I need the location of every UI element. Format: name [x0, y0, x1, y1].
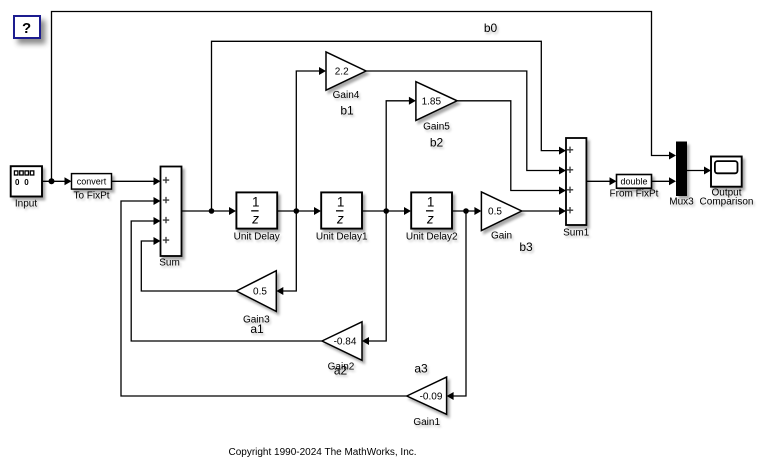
wire: Mux3 output to Output Comparison scope	[687, 167, 711, 175]
wire: tap up to Gain5 input	[386, 97, 416, 211]
junction: Sum output node	[209, 208, 215, 214]
svg-text:z: z	[336, 211, 344, 226]
help button ?	[14, 16, 40, 38]
svg-text:?: ?	[22, 20, 31, 37]
wire: Gain4 output to Sum1 input 2	[366, 71, 566, 175]
svg-text:z: z	[251, 211, 259, 226]
svg-text:-0.84: -0.84	[334, 337, 357, 348]
svg-text:b3: b3	[519, 240, 533, 254]
svg-text:Gain5: Gain5	[423, 121, 450, 132]
converter block To FixPt	[72, 174, 112, 190]
gain Gain (0.5) b3	[481, 192, 521, 231]
gain Gain1 (-0.09) a3, points left	[407, 377, 447, 414]
svg-text:Unit Delay: Unit Delay	[234, 232, 280, 243]
wire: Gain output to Sum1 input 4	[522, 207, 566, 215]
svg-text:-0.09: -0.09	[420, 392, 443, 403]
svg-text:a1: a1	[250, 322, 264, 336]
svg-text:Sum1: Sum1	[563, 228, 590, 239]
svg-text:convert: convert	[77, 177, 107, 187]
svg-text:1: 1	[427, 195, 435, 210]
junction: Unit Delay1 output node	[383, 208, 389, 214]
svg-text:Gain4: Gain4	[333, 90, 360, 101]
svg-text:Comparison: Comparison	[700, 197, 754, 208]
svg-text:1: 1	[337, 195, 345, 210]
svg-text:a2: a2	[334, 363, 348, 377]
wire: tap up to Gain4 input	[296, 67, 326, 211]
svg-text:Gain: Gain	[491, 231, 512, 242]
wire: Gain3 output to Sum input 4	[141, 237, 236, 291]
svg-text:1: 1	[252, 195, 260, 210]
delay block Unit Delay	[236, 192, 277, 228]
svg-text:Gain1: Gain1	[413, 417, 440, 428]
junction: Input output node	[49, 178, 55, 184]
gain Gain3 (0.5) a1, points left	[236, 271, 276, 312]
junction: Unit Delay output node	[294, 208, 300, 214]
gain Gain2 (-0.84) a2, points left	[322, 322, 362, 361]
wire: Gain2 output to Sum input 3	[131, 217, 322, 341]
wire: tap down to Gain2 input	[362, 211, 386, 345]
delay block Unit Delay1	[321, 192, 362, 228]
converter block From FixPt	[617, 175, 652, 189]
wire: Sum output to Unit Delay	[182, 207, 237, 215]
wire: Input output to To FixPt	[42, 177, 72, 185]
svg-text:double: double	[620, 177, 647, 187]
svg-text:0.5: 0.5	[253, 287, 267, 298]
adder Sum	[161, 167, 182, 257]
wire: From FixPt to Mux3 input 2	[652, 177, 677, 185]
svg-text:0.5: 0.5	[488, 207, 502, 218]
svg-text:b0: b0	[484, 21, 498, 35]
svg-text:b1: b1	[340, 104, 354, 118]
source block Input	[11, 166, 42, 196]
wire: tap down to Gain1 input	[447, 211, 466, 400]
svg-text:Mux3: Mux3	[669, 197, 694, 208]
svg-text:From FixPt: From FixPt	[610, 189, 659, 200]
wire: tap down to Gain3 input	[276, 211, 296, 295]
wire: Sum1 output to From FixPt	[586, 177, 616, 185]
delay block Unit Delay2	[411, 192, 452, 228]
mux Mux3	[676, 142, 687, 197]
svg-text:Sum: Sum	[159, 258, 180, 269]
label Output Comparison	[700, 188, 754, 208]
wire: Unit Delay1 to Unit Delay2	[362, 207, 411, 215]
svg-text:Copyright 1990-2024 The MathWo: Copyright 1990-2024 The MathWorks, Inc.	[228, 447, 416, 458]
svg-text:Input: Input	[15, 198, 37, 209]
svg-text:0 0: 0 0	[15, 178, 30, 187]
gain Gain4 (2.2)	[326, 52, 366, 90]
wire: b0 path from Sum output to Sum1 input 1	[212, 41, 567, 211]
junction: Unit Delay2 output node	[463, 208, 469, 214]
wire: Gain1 output to Sum input 2	[121, 197, 407, 396]
svg-text:1.85: 1.85	[422, 96, 442, 107]
svg-text:2.2: 2.2	[335, 67, 349, 78]
svg-text:Unit Delay2: Unit Delay2	[406, 232, 458, 243]
gain Gain5 (1.85)	[416, 82, 457, 121]
svg-text:z: z	[426, 211, 434, 226]
svg-text:Unit Delay1: Unit Delay1	[316, 232, 368, 243]
wire: Input tap up and across top to Mux3 input 1	[52, 12, 677, 182]
scope block Output Comparison	[711, 157, 742, 187]
svg-text:b2: b2	[430, 135, 444, 149]
adder Sum1	[566, 138, 586, 225]
wire: Unit Delay2 output to Gain input	[452, 207, 481, 215]
svg-text:a3: a3	[414, 362, 428, 376]
wire: To FixPt to Sum input 1	[112, 177, 161, 185]
wire: Gain5 output to Sum1 input 3	[457, 101, 566, 195]
svg-text:To FixPt: To FixPt	[73, 190, 109, 201]
wire: Unit Delay to Unit Delay1	[277, 207, 321, 215]
